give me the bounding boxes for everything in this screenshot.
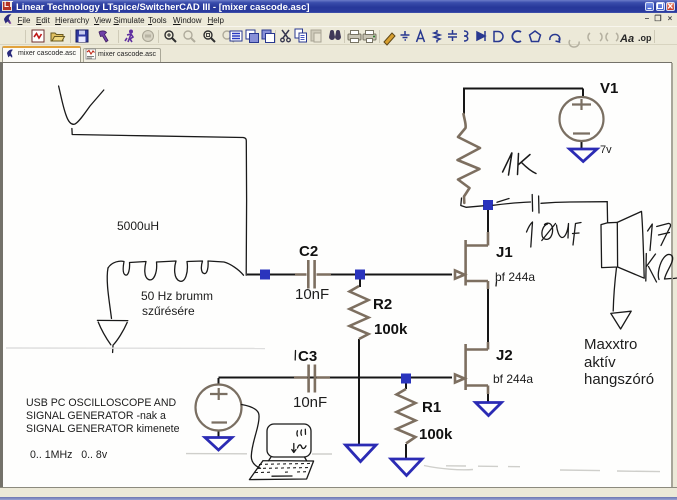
svg-text:.op: .op <box>638 33 652 43</box>
svg-text:Aa: Aa <box>619 33 634 45</box>
